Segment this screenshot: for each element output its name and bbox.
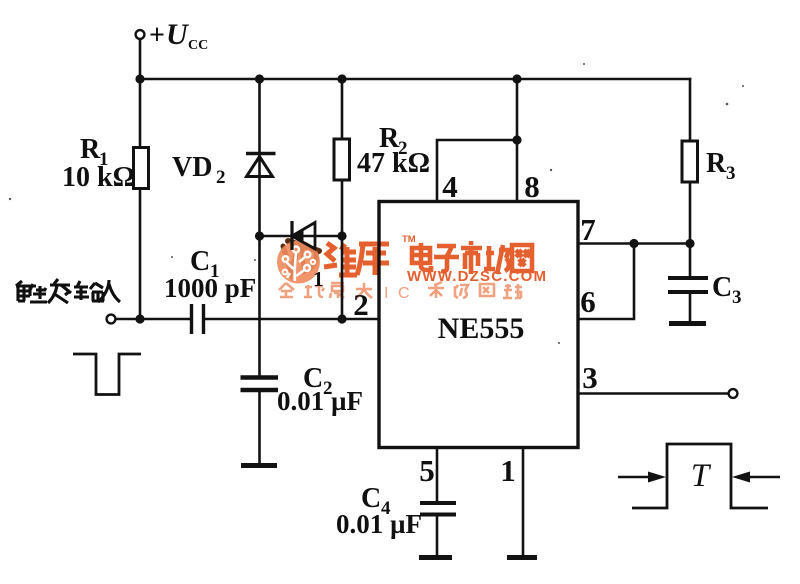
svg-text:NE555: NE555 — [438, 312, 525, 345]
svg-text:2: 2 — [216, 167, 226, 188]
label trigger input 输 — [74, 281, 104, 301]
svg-text:WWW.DZSC.COM: WWW.DZSC.COM — [407, 268, 547, 285]
arrow left of T — [618, 476, 655, 479]
wire pin 8 vertical — [516, 79, 519, 202]
terminal circle +Ucc — [136, 30, 145, 39]
wire R1 branch lower — [139, 189, 142, 320]
svg-text:C: C — [398, 285, 410, 302]
ground of C3 — [669, 321, 706, 326]
watermark text 网 — [512, 245, 532, 271]
svg-text:3: 3 — [726, 163, 736, 184]
svg-text:47 kΩ: 47 kΩ — [357, 148, 430, 179]
wire C3 stem lower — [689, 294, 692, 321]
resistor R1 — [134, 148, 149, 189]
op-amp NE555 IC box — [379, 202, 578, 448]
resistor R2 — [334, 139, 350, 180]
svg-text:TM: TM — [402, 234, 416, 245]
svg-text:C: C — [712, 272, 732, 303]
svg-text:R: R — [80, 134, 101, 165]
svg-text:1: 1 — [500, 453, 516, 488]
wire trigger line C1 to pin 2 — [205, 318, 379, 321]
watermark light row 全球最大IC采购网站 — [279, 283, 372, 298]
svg-text:U: U — [166, 18, 189, 51]
svg-text:VD: VD — [172, 152, 212, 183]
svg-text:5: 5 — [419, 453, 435, 488]
wire R1 branch upper — [139, 79, 142, 148]
label trigger input 触 — [16, 281, 47, 302]
svg-text:0.01 µF: 0.01 µF — [277, 386, 363, 416]
watermark label VD (dark glyph under logo) — [283, 241, 319, 272]
svg-text:T: T — [691, 458, 712, 494]
watermark text 电 — [412, 243, 431, 270]
wire top rail right corner down to R3 — [689, 79, 692, 141]
svg-text:10 kΩ: 10 kΩ — [62, 162, 135, 193]
watermark text 市 — [461, 241, 482, 274]
capacitor C3 plates — [668, 278, 708, 292]
svg-text:0.01 µF: 0.01 µF — [336, 509, 422, 539]
svg-text:3: 3 — [732, 287, 742, 308]
ground of pin 1 — [507, 555, 537, 560]
svg-text:R: R — [706, 148, 727, 179]
svg-text:2: 2 — [353, 287, 369, 322]
svg-text:7: 7 — [580, 212, 596, 247]
node dots — [135, 74, 694, 323]
scan speckles — [9, 63, 744, 344]
svg-text:8: 8 — [524, 169, 540, 204]
watermark text 子 — [434, 246, 459, 271]
wire R2 branch lower — [341, 180, 344, 319]
diode VD2 — [246, 154, 276, 177]
negative trigger pulse symbol — [73, 354, 141, 395]
schematic ink — [116, 39, 728, 555]
diode VD1 — [292, 221, 315, 250]
wire R2 branch upper — [341, 79, 344, 139]
watermark text 场 — [484, 245, 509, 274]
output pulse waveform — [632, 444, 768, 508]
terminal circle output pin 3 — [729, 389, 738, 398]
wire pin 3 output — [578, 392, 728, 395]
ground of C2 — [241, 463, 277, 468]
watermark text 库 — [357, 244, 389, 275]
watermark logo circle — [277, 241, 320, 284]
label trigger input 入 — [98, 280, 120, 302]
wire VD1 horizontal link — [260, 235, 343, 238]
wire C4 stem lower — [436, 516, 439, 555]
svg-text:I: I — [384, 285, 388, 302]
capacitor C4 plates — [420, 503, 456, 515]
capacitor C2 plates — [241, 378, 279, 391]
watermark logo traces — [286, 253, 306, 281]
wire pin 1 ground stem — [522, 448, 525, 556]
wire R3 lower — [689, 182, 692, 244]
wire C2 stem lower — [258, 392, 261, 463]
wire pin 6 to tie vertical — [578, 244, 634, 320]
wire pin 5 stem — [436, 448, 439, 502]
wire C3 stem upper — [689, 244, 692, 277]
svg-text:1000 pF: 1000 pF — [164, 273, 256, 303]
resistor R3 — [682, 141, 698, 182]
svg-text:CC: CC — [188, 38, 208, 53]
svg-text:1: 1 — [313, 267, 324, 291]
wire top rail — [140, 78, 690, 81]
wire trigger input left — [116, 318, 190, 321]
wire VD2 / C2 vertical branch — [258, 79, 261, 375]
svg-text:3: 3 — [582, 360, 598, 395]
arrow right of T — [743, 476, 780, 479]
svg-text:4: 4 — [442, 169, 458, 204]
label trigger input 发 — [42, 276, 45, 279]
ground of C4 — [419, 555, 452, 560]
wire pin 7 to R3 node — [578, 242, 690, 245]
power terminal +Ucc stub wire — [139, 39, 142, 79]
svg-text:+: + — [149, 20, 165, 51]
svg-text:6: 6 — [580, 284, 596, 319]
terminal circle trigger input — [107, 315, 116, 324]
capacitor C1 plates — [192, 304, 204, 334]
wire pin 4 link to pin 8 — [437, 140, 517, 202]
watermark text 维 — [324, 243, 357, 275]
